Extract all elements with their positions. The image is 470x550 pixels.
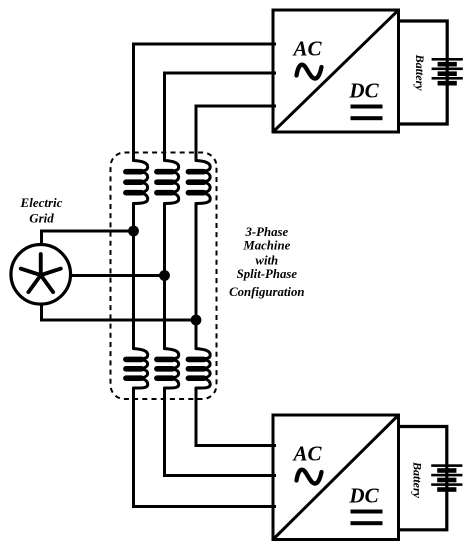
- svg-text:Machine: Machine: [242, 238, 290, 252]
- svg-text:Battery: Battery: [410, 461, 424, 499]
- svg-text:Grid: Grid: [29, 210, 54, 225]
- svg-text:DC: DC: [348, 79, 379, 103]
- svg-text:DC: DC: [348, 484, 379, 508]
- svg-text:Battery: Battery: [413, 54, 427, 92]
- svg-text:Configuration: Configuration: [229, 285, 304, 299]
- svg-text:with: with: [255, 253, 278, 267]
- svg-text:Split-Phase: Split-Phase: [237, 267, 298, 281]
- svg-text:3-Phase: 3-Phase: [244, 225, 288, 239]
- svg-text:AC: AC: [291, 442, 322, 466]
- svg-text:AC: AC: [291, 37, 322, 61]
- svg-text:Electric: Electric: [20, 195, 63, 210]
